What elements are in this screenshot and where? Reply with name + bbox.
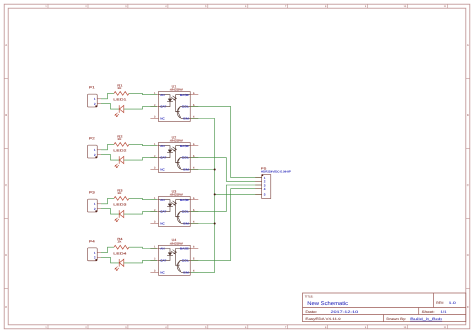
LED3 (113, 203, 127, 223)
svg-text:1k: 1k (117, 86, 122, 90)
svg-text:LED3: LED3 (113, 203, 127, 207)
U2 internal phototransistor (175, 146, 190, 170)
U4 internal LED (159, 249, 177, 261)
U4 pin 5 COL (190, 258, 198, 261)
svg-text:Build_it_Bob: Build_it_Bob (410, 317, 442, 321)
U2 pin 5 COL (190, 155, 198, 158)
wire P1.1 to R1 (101, 93, 114, 98)
svg-text:1k: 1k (117, 137, 122, 141)
wire P2.2 to LED2 (101, 155, 119, 161)
wire P4.2 to LED4 (101, 257, 119, 263)
optocoupler U3 4N25W (159, 189, 191, 226)
U1 pin 1 AN (150, 92, 158, 95)
resistor R3 1k (114, 188, 129, 200)
wire R4 to U4.AN (129, 247, 157, 248)
svg-text:COL: COL (182, 156, 190, 160)
U3 pin 4 EM (190, 221, 198, 224)
svg-text:Sheet:: Sheet: (422, 310, 435, 314)
U3 pin 2 CAT (150, 209, 158, 212)
svg-text:D: D (467, 253, 469, 257)
U2 pin 6 BASE (190, 143, 198, 146)
svg-text:BASE: BASE (180, 93, 189, 97)
wire U3.EM to bus (191, 223, 215, 225)
U3 pin names (160, 198, 189, 226)
svg-text:TITLE:: TITLE: (305, 295, 314, 299)
wire U4.COL to P5 pin 4 (191, 189, 262, 261)
U2 pin names (160, 144, 189, 172)
U1 pin names (160, 93, 189, 121)
svg-text:Date:: Date: (305, 310, 317, 314)
U2 pin 2 CAT (150, 155, 158, 158)
svg-text:BASE: BASE (180, 144, 189, 148)
svg-text:CAT: CAT (160, 210, 166, 214)
svg-text:EM: EM (183, 168, 189, 172)
U1 internal LED (159, 95, 177, 107)
svg-text:BASE: BASE (180, 198, 189, 202)
svg-text:NC: NC (160, 222, 164, 226)
U4 pin 6 BASE (190, 246, 198, 249)
svg-text:1.0: 1.0 (449, 301, 456, 305)
wire R2 to U2.AN (129, 144, 157, 145)
wire U1.COL to P5 pin 1 (191, 107, 262, 178)
svg-text:2017-12-10: 2017-12-10 (331, 310, 359, 314)
svg-text:COL: COL (182, 105, 190, 109)
U1 pin 6 BASE (190, 92, 198, 95)
U4 internal phototransistor (175, 249, 190, 273)
svg-text:LED4: LED4 (113, 251, 127, 255)
svg-text:4N25W: 4N25W (170, 139, 183, 143)
svg-text:A: A (467, 43, 469, 47)
svg-text:NC: NC (160, 270, 164, 274)
wire U3.COL to P5 pin 3 (191, 185, 262, 212)
junction P5 pin 5 (214, 193, 216, 195)
wire LED4 to U4.CAT (124, 260, 157, 263)
svg-text:E: E (5, 305, 7, 309)
svg-text:P3: P3 (89, 191, 95, 195)
svg-text:EM: EM (183, 270, 189, 274)
svg-text:4N25W: 4N25W (170, 88, 183, 92)
wire LED3 to U3.CAT (124, 212, 157, 215)
svg-text:CAT: CAT (160, 259, 166, 263)
svg-text:REV:: REV: (436, 301, 444, 305)
resistor R2 1k (114, 134, 129, 146)
LED2 (113, 149, 127, 169)
U2 pin 3 NC (150, 167, 158, 170)
connector P1 (88, 86, 102, 107)
connector P3 (88, 191, 102, 212)
svg-text:4N25W: 4N25W (170, 193, 183, 197)
title block texts (305, 295, 456, 321)
U3 pin 6 BASE (190, 197, 198, 200)
svg-text:LED1: LED1 (113, 98, 127, 102)
svg-text:EM: EM (183, 222, 189, 226)
connector P4 (88, 239, 102, 260)
wire U2.EM to bus (191, 169, 215, 171)
U2 internal LED (159, 146, 177, 158)
svg-text:Drawn By:: Drawn By: (386, 317, 406, 321)
wire P2.1 to R2 (101, 144, 114, 149)
svg-text:EasyEDA V4.11.9: EasyEDA V4.11.9 (305, 317, 341, 321)
U4 pin 3 NC (150, 270, 158, 273)
svg-text:NC: NC (160, 168, 164, 172)
svg-text:P4: P4 (89, 239, 95, 243)
svg-text:CAT: CAT (160, 105, 166, 109)
LED1 (113, 98, 127, 118)
U1 pin 3 NC (150, 116, 158, 119)
wire LED2 to U2.CAT (124, 158, 157, 161)
svg-text:AN: AN (160, 247, 164, 251)
wire P1.2 to LED1 (101, 104, 119, 110)
svg-text:BASE: BASE (180, 247, 189, 251)
U2 pin 1 AN (150, 143, 158, 146)
svg-text:D: D (5, 253, 7, 257)
svg-text:P2: P2 (89, 137, 95, 141)
wire common emitter bus (191, 119, 215, 273)
svg-text:AN: AN (160, 198, 164, 202)
optocoupler U4 4N25W (159, 238, 191, 275)
svg-text:4: 4 (264, 187, 266, 191)
U1 pin 2 CAT (150, 104, 158, 107)
svg-text:1k: 1k (117, 240, 122, 244)
wire R1 to U1.AN (129, 93, 157, 94)
resistor R1 1k (114, 83, 129, 95)
U3 pin 3 NC (150, 221, 158, 224)
svg-text:AN: AN (160, 144, 164, 148)
svg-text:COL: COL (182, 259, 190, 263)
svg-text:A: A (5, 43, 7, 47)
U1 pin 5 COL (190, 104, 198, 107)
wire P3.2 to LED3 (101, 209, 119, 215)
LED4 (113, 251, 127, 271)
svg-text:NC: NC (160, 117, 164, 121)
optocoupler U2 4N25W (159, 135, 191, 172)
U3 pin 1 AN (150, 197, 158, 200)
connector P2 (88, 137, 102, 158)
wire P3.1 to R3 (101, 198, 114, 203)
svg-text:C: C (5, 183, 7, 187)
svg-text:5: 5 (264, 193, 266, 197)
U4 pin 4 EM (190, 270, 198, 273)
svg-text:4N25W: 4N25W (170, 242, 183, 246)
junction U3.EM (214, 223, 216, 225)
svg-text:B: B (5, 113, 7, 117)
wire R3 to U3.AN (129, 198, 157, 199)
U1 internal phototransistor (175, 95, 190, 119)
svg-text:C: C (467, 183, 469, 187)
optocoupler U1 4N25W (159, 84, 191, 121)
wire bus to P5 pin 5 (215, 193, 262, 195)
svg-text:LED2: LED2 (113, 149, 127, 153)
U3 internal phototransistor (175, 200, 190, 224)
wire U2.COL to P5 pin 2 (191, 158, 262, 182)
svg-text:CAT: CAT (160, 156, 166, 160)
svg-text:1k: 1k (117, 191, 122, 195)
resistor R4 1k (114, 237, 129, 249)
svg-text:HDR254V/DC-5.08-9P: HDR254V/DC-5.08-9P (261, 171, 291, 174)
wire P4.1 to R4 (101, 247, 114, 252)
svg-text:New Schematic: New Schematic (307, 301, 348, 307)
svg-text:E: E (467, 305, 469, 309)
svg-text:B: B (467, 113, 469, 117)
U3 internal LED (159, 200, 177, 212)
U1 pin 4 EM (190, 116, 198, 119)
U4 pin 1 AN (150, 246, 158, 249)
wire LED1 to U1.CAT (124, 107, 157, 110)
frame row tick marks (4, 79, 470, 289)
title block (303, 293, 466, 322)
U2 pin 4 EM (190, 167, 198, 170)
svg-text:1/1: 1/1 (441, 310, 447, 314)
U3 pin 5 COL (190, 209, 198, 212)
svg-text:P1: P1 (89, 86, 95, 90)
svg-text:COL: COL (182, 210, 190, 214)
frame row letters (5, 43, 469, 309)
connector P5 HDR254V/DC-5.08-9P (255, 166, 291, 198)
junction U2.EM (214, 169, 216, 171)
U4 pin 2 CAT (150, 258, 158, 261)
svg-text:EM: EM (183, 117, 189, 121)
U4 pin names (160, 247, 189, 275)
svg-text:AN: AN (160, 93, 164, 97)
